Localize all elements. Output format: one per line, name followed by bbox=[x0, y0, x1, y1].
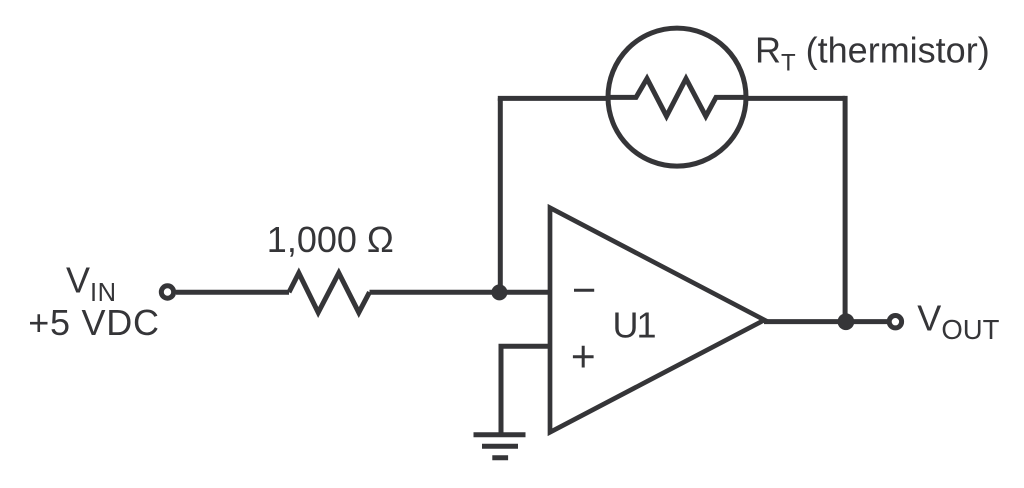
input terminal (open circle) bbox=[161, 286, 173, 298]
ground bar 2 bbox=[482, 444, 518, 449]
wire input terminal to resistor bbox=[176, 290, 289, 295]
svg-text:U1: U1 bbox=[613, 305, 656, 346]
thermistor RT internal zigzag bbox=[609, 79, 746, 117]
op-amp minus sign bbox=[574, 289, 594, 292]
wire node A up to feedback rail bbox=[498, 98, 503, 294]
svg-text:+5 VDC: +5 VDC bbox=[28, 302, 160, 343]
node A junction dot bbox=[491, 284, 507, 300]
ground bar 3 bbox=[492, 455, 508, 460]
output terminal (open circle) bbox=[889, 316, 901, 328]
wire resistor to op-amp inverting input (through node A) bbox=[370, 290, 551, 295]
feedback rail top-right wire bbox=[744, 96, 845, 101]
svg-text:1,000 Ω: 1,000 Ω bbox=[267, 219, 394, 260]
output wire op-amp to terminal bbox=[764, 319, 890, 324]
ground bar 1 bbox=[474, 432, 526, 437]
output node dot bbox=[838, 313, 855, 330]
thermistor RT circle bbox=[608, 28, 746, 166]
feedback rail top-left wire bbox=[498, 96, 610, 101]
wire op-amp non-inverting input to ground bbox=[501, 346, 550, 434]
svg-text:RT (thermistor): RT (thermistor) bbox=[755, 29, 990, 76]
resistor R1 1,000 ohm zigzag bbox=[289, 273, 370, 313]
op-amp plus sign bbox=[573, 346, 594, 368]
svg-text:VOUT: VOUT bbox=[917, 298, 999, 346]
feedback rail right vertical wire bbox=[843, 96, 848, 322]
op-amp U1 triangle bbox=[550, 208, 764, 432]
svg-text:VIN: VIN bbox=[66, 259, 117, 307]
